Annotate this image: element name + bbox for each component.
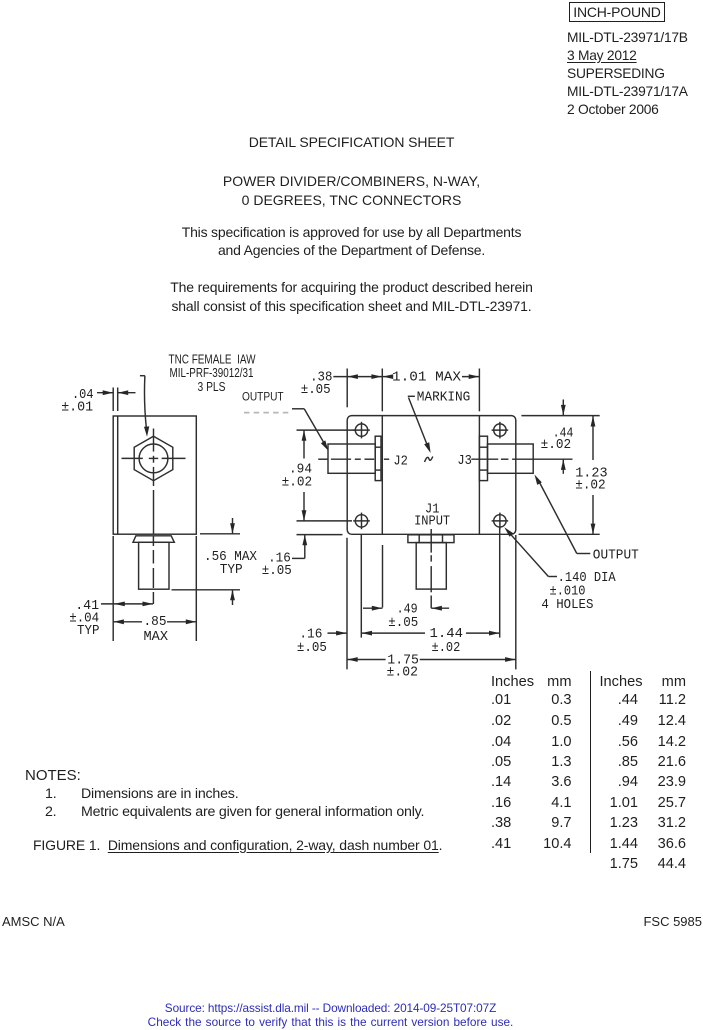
body section line right — [478, 416, 480, 535]
dim .38 arrows — [347, 374, 358, 379]
J1 centerline — [430, 529, 432, 608]
svg-text:3 PLS: 3 PLS — [198, 379, 226, 394]
dim .85 text — [144, 614, 169, 645]
dim 1.44 line and arrows — [361, 632, 425, 634]
OUTPUT top-left leader arrow — [292, 408, 304, 410]
connector J3 body — [488, 444, 534, 473]
dim .16 bottom arrow — [328, 632, 347, 634]
blue footer — [0, 1001, 661, 1015]
OUTPUT bottom-right leader arrow — [577, 553, 591, 555]
dim 1.75 text — [387, 652, 419, 680]
J3 centerline — [471, 458, 572, 460]
svg-text:±.02: ±.02 — [387, 665, 419, 681]
TNC leader arrow — [140, 375, 145, 377]
dim .41 line and arrows — [101, 603, 153, 605]
dim 1.01 MAX text — [392, 370, 462, 386]
dim 1.23 text — [575, 466, 607, 494]
dim .85 extension lines — [112, 536, 114, 641]
label J3 — [457, 453, 472, 469]
dim .38 text — [301, 369, 333, 398]
dim .16 upper-left text — [262, 551, 292, 579]
top view body — [347, 416, 516, 535]
dim 1.44 text — [430, 626, 464, 656]
svg-text:J3: J3 — [457, 453, 472, 469]
J2 centerline — [318, 458, 389, 460]
dim .85 line and arrows — [113, 621, 142, 623]
svg-text:±.02: ±.02 — [575, 477, 606, 493]
dim .94 line — [303, 430, 305, 458]
svg-text:J2: J2 — [393, 454, 408, 470]
svg-text:MAX: MAX — [144, 629, 169, 645]
dim 1.23 arrows — [591, 416, 596, 427]
connector J3 flange — [479, 436, 487, 480]
svg-text:±.05: ±.05 — [388, 615, 418, 631]
dim .56 text — [204, 549, 258, 578]
connector J1 stub — [416, 543, 446, 590]
TABLE — [590, 671, 591, 853]
svg-text:.85: .85 — [144, 614, 167, 630]
marking tilde — [425, 457, 433, 463]
svg-text:4 HOLES: 4 HOLES — [541, 597, 593, 613]
NOTES — [25, 766, 81, 785]
dim .16 upper-left arrow — [304, 535, 306, 559]
dim .56 arrows — [232, 518, 234, 534]
mounting hole top-left — [353, 422, 370, 439]
AMSC / FSC — [2, 914, 65, 929]
bottom extension lines — [346, 538, 348, 670]
svg-text:TYP: TYP — [77, 623, 100, 639]
vertical centerline — [152, 429, 154, 605]
connector circle — [139, 444, 168, 473]
faint dashed artifact line — [244, 412, 291, 414]
dim .49 arrows — [363, 607, 383, 609]
svg-text:±.05: ±.05 — [301, 382, 331, 398]
dim 1.01 arrows — [383, 374, 394, 379]
dim 1.23 line — [592, 416, 594, 460]
svg-text:MIL-PRF-39012/31: MIL-PRF-39012/31 — [170, 365, 254, 380]
svg-text:±.02: ±.02 — [541, 437, 572, 453]
connector flange (side) — [133, 536, 174, 543]
dim .56 extension lines — [200, 533, 240, 535]
svg-text:±.05: ±.05 — [297, 640, 327, 656]
svg-text:±.05: ±.05 — [262, 563, 292, 579]
hex nut — [134, 436, 173, 481]
dim 1.75 line and arrows — [347, 659, 386, 661]
horizontal centerline — [122, 457, 186, 459]
svg-text:MARKING: MARKING — [417, 390, 471, 406]
dim .49 text — [388, 601, 418, 631]
svg-text:±.02: ±.02 — [432, 640, 461, 656]
svg-text:±.01: ±.01 — [61, 399, 93, 415]
dim .04 extension lines — [112, 388, 114, 412]
connector J2 body — [328, 444, 375, 473]
top dims extension lines — [346, 369, 348, 408]
right header block — [567, 29, 688, 119]
side view lid line — [117, 416, 119, 534]
dim .41 text — [69, 598, 99, 639]
side view body — [113, 416, 196, 534]
connector J1 flange — [408, 535, 454, 543]
dim .16 bottom text — [297, 627, 327, 657]
svg-text:INPUT: INPUT — [414, 514, 450, 530]
.140 DIA leader arrow — [548, 576, 557, 578]
svg-text:1.01 MAX: 1.01 MAX — [392, 370, 462, 386]
OUTPUT label (top left, sans) — [242, 390, 284, 404]
dim .38 / 1.01 line — [333, 376, 382, 378]
mounting hole top-right — [492, 422, 509, 439]
mounting hole bottom-right — [492, 513, 509, 530]
svg-text:OUTPUT: OUTPUT — [242, 390, 284, 404]
dim .94 arrows — [302, 430, 307, 441]
dim .44 text — [541, 426, 574, 454]
dim .94 extension lines — [297, 429, 355, 431]
dim 1.23 extension line bottom — [519, 533, 600, 535]
dim .04 text — [61, 387, 93, 415]
connector stub (side) — [139, 542, 169, 589]
svg-text:OUTPUT: OUTPUT — [593, 547, 639, 563]
svg-text:TYP: TYP — [220, 562, 243, 578]
dim .94 text — [282, 462, 313, 491]
OUTPUT label (bottom right) — [593, 547, 639, 563]
body bottom extension line left — [297, 534, 343, 536]
connector J2 flange — [375, 436, 381, 480]
body section line left — [381, 416, 383, 535]
title block — [0, 133, 703, 152]
dim .44 extension line top — [521, 415, 599, 417]
MARKING label and leader — [408, 395, 415, 397]
dim .44 arrows — [562, 400, 564, 416]
dim .04 arrows — [97, 392, 113, 394]
label J1 INPUT — [414, 502, 450, 530]
TNC FEMALE label — [169, 351, 257, 394]
label J2 — [393, 454, 408, 470]
.140 DIA text — [541, 570, 616, 613]
svg-text:±.02: ±.02 — [282, 475, 313, 491]
INCH-POUND box — [569, 2, 665, 22]
mounting hole bottom-left — [353, 513, 370, 530]
